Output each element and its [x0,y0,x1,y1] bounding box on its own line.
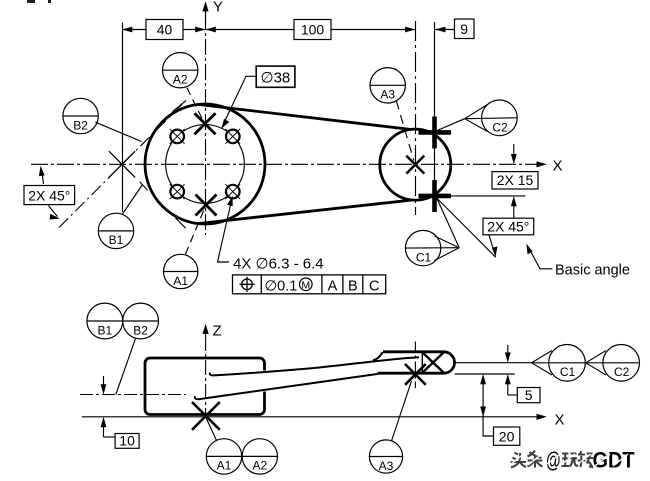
watermark [511,451,594,468]
block outline (boss side view) [145,358,265,415]
leader A3 (dashed) [396,101,414,161]
right boss outline [378,352,455,373]
upper tangent line [198,104,411,129]
arm upper shoulder into right boss [373,352,383,360]
svg-text:C: C [369,278,379,294]
balloon A1 (side) [206,439,241,474]
box 5 [517,387,540,403]
datum target cross C2 (top) [419,117,452,149]
svg-text:C1: C1 [560,365,576,379]
leader A1 (dashed) [186,209,205,255]
svg-text:∅38: ∅38 [261,70,291,87]
svg-text:40: 40 [157,22,173,38]
leader C1 [437,198,460,248]
dimension line 9 [435,27,455,33]
big circle (boss) [145,104,265,224]
box Dia38 [256,66,295,87]
svg-text:A2: A2 [252,459,267,473]
hole top-left [170,129,185,144]
cropped title text remnant [27,0,51,3]
divider B1 B2 [87,320,159,322]
svg-text:5: 5 [525,387,533,403]
extension line x=434.5 (9 dim) [434,22,436,212]
X axis (side view) [82,414,547,420]
svg-text:GDT: GDT [593,448,635,473]
extension line x=122 (40 dim) [122,23,124,213]
svg-text:4X ∅6.3 - 6.4: 4X ∅6.3 - 6.4 [233,256,324,273]
balloon A3 (side) [369,440,402,473]
svg-text:2X 15: 2X 15 [497,172,534,188]
label 4X dia 6.3-6.4 [233,256,324,273]
angular arc 2X45 left [39,166,60,220]
svg-text:M: M [301,280,310,292]
leader A3 (side) [391,381,411,442]
svg-text:B1: B1 [109,233,124,247]
leader Dia38 [221,76,256,129]
node X marker at left intersection [109,151,135,177]
basic angle 45 line [435,196,496,257]
crosshatch box [422,352,444,373]
svg-text:Basic angle: Basic angle [555,263,630,279]
svg-text:Y: Y [213,0,223,16]
small circle (eye) [380,129,451,200]
balloon A1 [164,254,198,288]
svg-text:B: B [348,278,358,294]
svg-text:A: A [328,278,338,294]
leader C2 [436,119,465,131]
balloon A3 [370,68,405,103]
box 40 [146,20,183,40]
leader B2 [95,122,141,141]
leader A1A2 [206,418,217,442]
dimension line 100 [206,27,416,33]
target line y=374 [455,373,515,375]
balloon B1 [98,213,133,248]
svg-text:B1: B1 [97,324,112,338]
svg-text:A3: A3 [379,459,394,473]
chamfer tick lower-left of boss [175,218,185,228]
side centerline left [80,394,186,396]
dimension 2X 15 arrows [511,144,517,218]
leader B1B2 to centerline [116,339,136,395]
datum target X top (A2) [195,113,216,134]
svg-text:B2: B2 [73,118,88,132]
balloon B2 [63,98,98,133]
svg-text:2X 45°: 2X 45° [28,187,70,203]
dim 10 [101,376,115,437]
box 2X 45 right [483,218,534,235]
45-degree centerline through left node [59,101,186,228]
balloon A2 [163,52,198,87]
svg-text:2X 45°: 2X 45° [487,218,529,234]
svg-text:X: X [553,158,563,175]
hole bottom-right [225,184,240,199]
watermark highlight streaks [511,453,628,466]
svg-text:X: X [555,412,565,429]
X axis (top view) [31,161,547,167]
svg-text:∅0.1: ∅0.1 [265,278,298,294]
svg-text:Z: Z [213,323,222,340]
box 2X 15 [492,172,538,189]
svg-text:100: 100 [301,22,325,38]
dim 5 [505,345,517,395]
svg-text:A1: A1 [217,459,232,473]
box 10 [115,433,139,449]
svg-text:A3: A3 [380,88,395,102]
svg-text:C2: C2 [492,120,508,134]
svg-text:C2: C2 [614,365,630,379]
small hole centerline (side) [414,342,416,389]
extension line x=415.4 (100 dim) [415,21,417,215]
45-degree dash lower-right of node [140,182,148,190]
balloon C2 (side) with cone [586,345,640,382]
Z axis [203,324,209,416]
svg-text:9: 9 [460,21,468,37]
svg-text:10: 10 [119,433,135,449]
arrow from 2X45 to basic line [489,235,498,257]
balloon C1 with cone [405,230,459,265]
box 100 [294,20,331,40]
svg-text:20: 20 [499,429,515,445]
balloon B1 (side) [87,303,123,339]
box 2X 45 left [24,186,75,205]
dimension line 40 [122,27,206,33]
X marker left (A1 A2) [192,402,220,430]
Y axis (top view) [202,1,208,235]
datum target X bottom (A1) [196,195,217,216]
arm upper silhouette [210,357,419,375]
leader 4X holes [218,196,233,263]
svg-text:A1: A1 [173,274,188,288]
target line from C1 cross [435,195,526,197]
datum target cross C1 (bottom) [419,180,452,212]
hole bottom-left [170,184,185,199]
chamfer tick upper-left of boss [172,101,185,112]
arm lower silhouette [195,374,378,399]
svg-text:B2: B2 [133,324,148,338]
Basic angle label [526,244,630,279]
hole top-right [225,129,240,144]
leader A2 (dashed) [187,88,203,121]
X marker small circle center (A3) [406,156,424,174]
bolt circle [166,125,245,204]
dim 20 [480,374,493,436]
balloon B2 (side) [123,303,159,339]
lower tangent line [198,200,411,224]
X marker right (A3) [405,364,426,385]
balloon C2 with cone [465,100,518,136]
balloon C1 (side) with cone [532,345,586,382]
svg-text:A2: A2 [173,73,188,87]
feature control frame [233,275,386,294]
watermark @GDT [546,448,635,473]
box 20 [494,427,520,445]
target line y=362.7 [455,362,532,364]
balloon A2 (side) [242,439,277,474]
box 9 [455,19,475,39]
leader B1 [122,185,143,215]
svg-text:C1: C1 [416,250,432,264]
